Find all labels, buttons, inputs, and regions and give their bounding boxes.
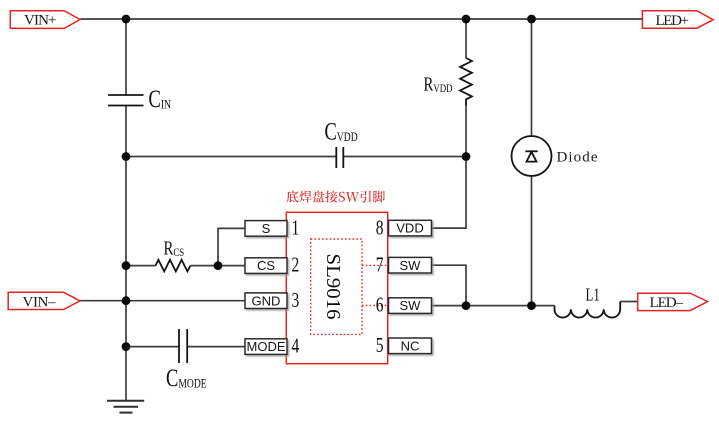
svg-text:GND: GND: [252, 293, 281, 308]
connector flag VIN-: [8, 292, 80, 310]
label C_VDD: [325, 117, 358, 145]
svg-text:1: 1: [292, 216, 300, 239]
IC exposed pad dashed box: [311, 239, 362, 334]
wire CVDD horizontal right segment: [343, 156, 466, 158]
inductor L1: [555, 302, 621, 318]
pin 8: [376, 216, 384, 239]
capacitor C_MODE: [179, 329, 187, 363]
node junction VIN-: [122, 296, 131, 305]
svg-text:LED–: LED–: [650, 295, 684, 311]
capacitor C_VDD: [336, 147, 343, 168]
node junction CMODE: [122, 342, 131, 351]
node junction RVDD top: [462, 15, 471, 24]
capacitor C_IN: [108, 95, 144, 106]
wire RCS row left segment: [126, 265, 156, 267]
node junction VIN+ rail: [122, 15, 131, 24]
wire RCS to node A: [191, 265, 219, 267]
wire diode branch upper: [531, 19, 533, 136]
wire VIN- to GND pin: [80, 300, 245, 302]
svg-text:6: 6: [376, 294, 384, 317]
connector flag LED+: [642, 11, 713, 29]
svg-text:L1: L1: [586, 286, 600, 305]
svg-text:8: 8: [376, 216, 384, 239]
wire left vertical rail lower (CIN to ground): [125, 106, 127, 401]
svg-text:VDD: VDD: [396, 221, 423, 236]
wire diode node to L1: [532, 305, 555, 307]
resistor R_CS: [156, 260, 191, 272]
wire RVDD bottom to VDD pin: [432, 106, 467, 229]
wire RVDD top stub: [465, 19, 467, 58]
svg-text:3: 3: [292, 289, 300, 312]
svg-text:MODE: MODE: [247, 339, 286, 354]
wire dashed pad to pin6: [362, 305, 388, 307]
node junction diode top: [527, 15, 536, 24]
wire SW pin6 to node B: [429, 305, 466, 307]
label C_IN: [149, 84, 171, 112]
wire MODE row right segment: [187, 346, 245, 348]
svg-text:SW: SW: [400, 258, 422, 273]
svg-text:RCS: RCS: [164, 236, 185, 259]
pin 4: [292, 335, 300, 358]
svg-text:RVDD: RVDD: [424, 72, 453, 95]
pin NC box: [389, 338, 432, 354]
node B junction SW: [462, 301, 471, 310]
label 底焊盘接SW引脚: [287, 190, 385, 202]
svg-text:VIN–: VIN–: [23, 294, 57, 310]
label R_CS: [164, 236, 185, 259]
svg-text:VIN+: VIN+: [24, 13, 57, 29]
resistor R_VDD: [460, 58, 472, 106]
pin GND box: [245, 293, 287, 309]
connector flag LED-: [638, 293, 708, 311]
svg-text:LED+: LED+: [656, 13, 690, 29]
node junction diode bottom: [527, 301, 536, 310]
connector flag VIN+: [10, 11, 80, 29]
pin 7: [376, 253, 384, 276]
node A junction RCS right: [214, 261, 223, 270]
node junction CVDD left: [122, 152, 131, 161]
label C_MODE: [166, 363, 207, 391]
label SL9016: [322, 254, 344, 320]
label L1: [586, 286, 600, 305]
pin 2: [292, 254, 300, 277]
svg-text:S: S: [262, 221, 271, 236]
pin SW box lower: [389, 298, 432, 314]
svg-text:SW: SW: [400, 298, 422, 313]
wire node A to CS pin: [218, 265, 245, 267]
svg-text:CIN: CIN: [149, 84, 171, 112]
svg-text:4: 4: [292, 335, 300, 358]
pin SW box upper: [389, 257, 432, 273]
ground: [107, 401, 144, 413]
op-amp U1 IC SL9016 body: [286, 212, 387, 363]
pin 6: [376, 294, 384, 317]
wire node B to diode node: [466, 305, 532, 307]
wire MODE row left segment: [126, 346, 179, 348]
svg-text:5: 5: [376, 334, 384, 357]
pin 1: [292, 216, 300, 239]
svg-text:CMODE: CMODE: [166, 363, 207, 391]
svg-text:Diode: Diode: [557, 150, 598, 166]
svg-text:SL9016: SL9016: [322, 254, 344, 320]
wire dashed pad to pin7: [362, 264, 388, 266]
wire node A up to S pin: [218, 228, 245, 265]
svg-text:7: 7: [376, 253, 384, 276]
wire CVDD horizontal left segment: [126, 156, 336, 158]
wire top rail VIN+ to LED+: [81, 18, 645, 20]
pin VDD box: [389, 220, 432, 236]
node junction CVDD right: [462, 152, 471, 161]
pin S box: [245, 221, 287, 237]
svg-text:NC: NC: [401, 338, 420, 353]
wire SW pin7 to node B: [431, 265, 466, 305]
wire L1 to LED-: [620, 301, 638, 303]
diode D1: [512, 136, 552, 176]
svg-text:CVDD: CVDD: [325, 117, 358, 145]
pin 5: [376, 334, 384, 357]
label R_VDD: [424, 72, 453, 95]
svg-text:CS: CS: [257, 258, 275, 273]
svg-text:2: 2: [292, 254, 300, 277]
pin MODE box: [245, 339, 287, 355]
wire left vertical rail upper (to CIN): [125, 19, 127, 95]
wire diode branch lower: [531, 176, 533, 306]
pin 3: [292, 289, 300, 312]
node junction RCS left: [122, 261, 131, 270]
pin CS box: [245, 258, 287, 274]
